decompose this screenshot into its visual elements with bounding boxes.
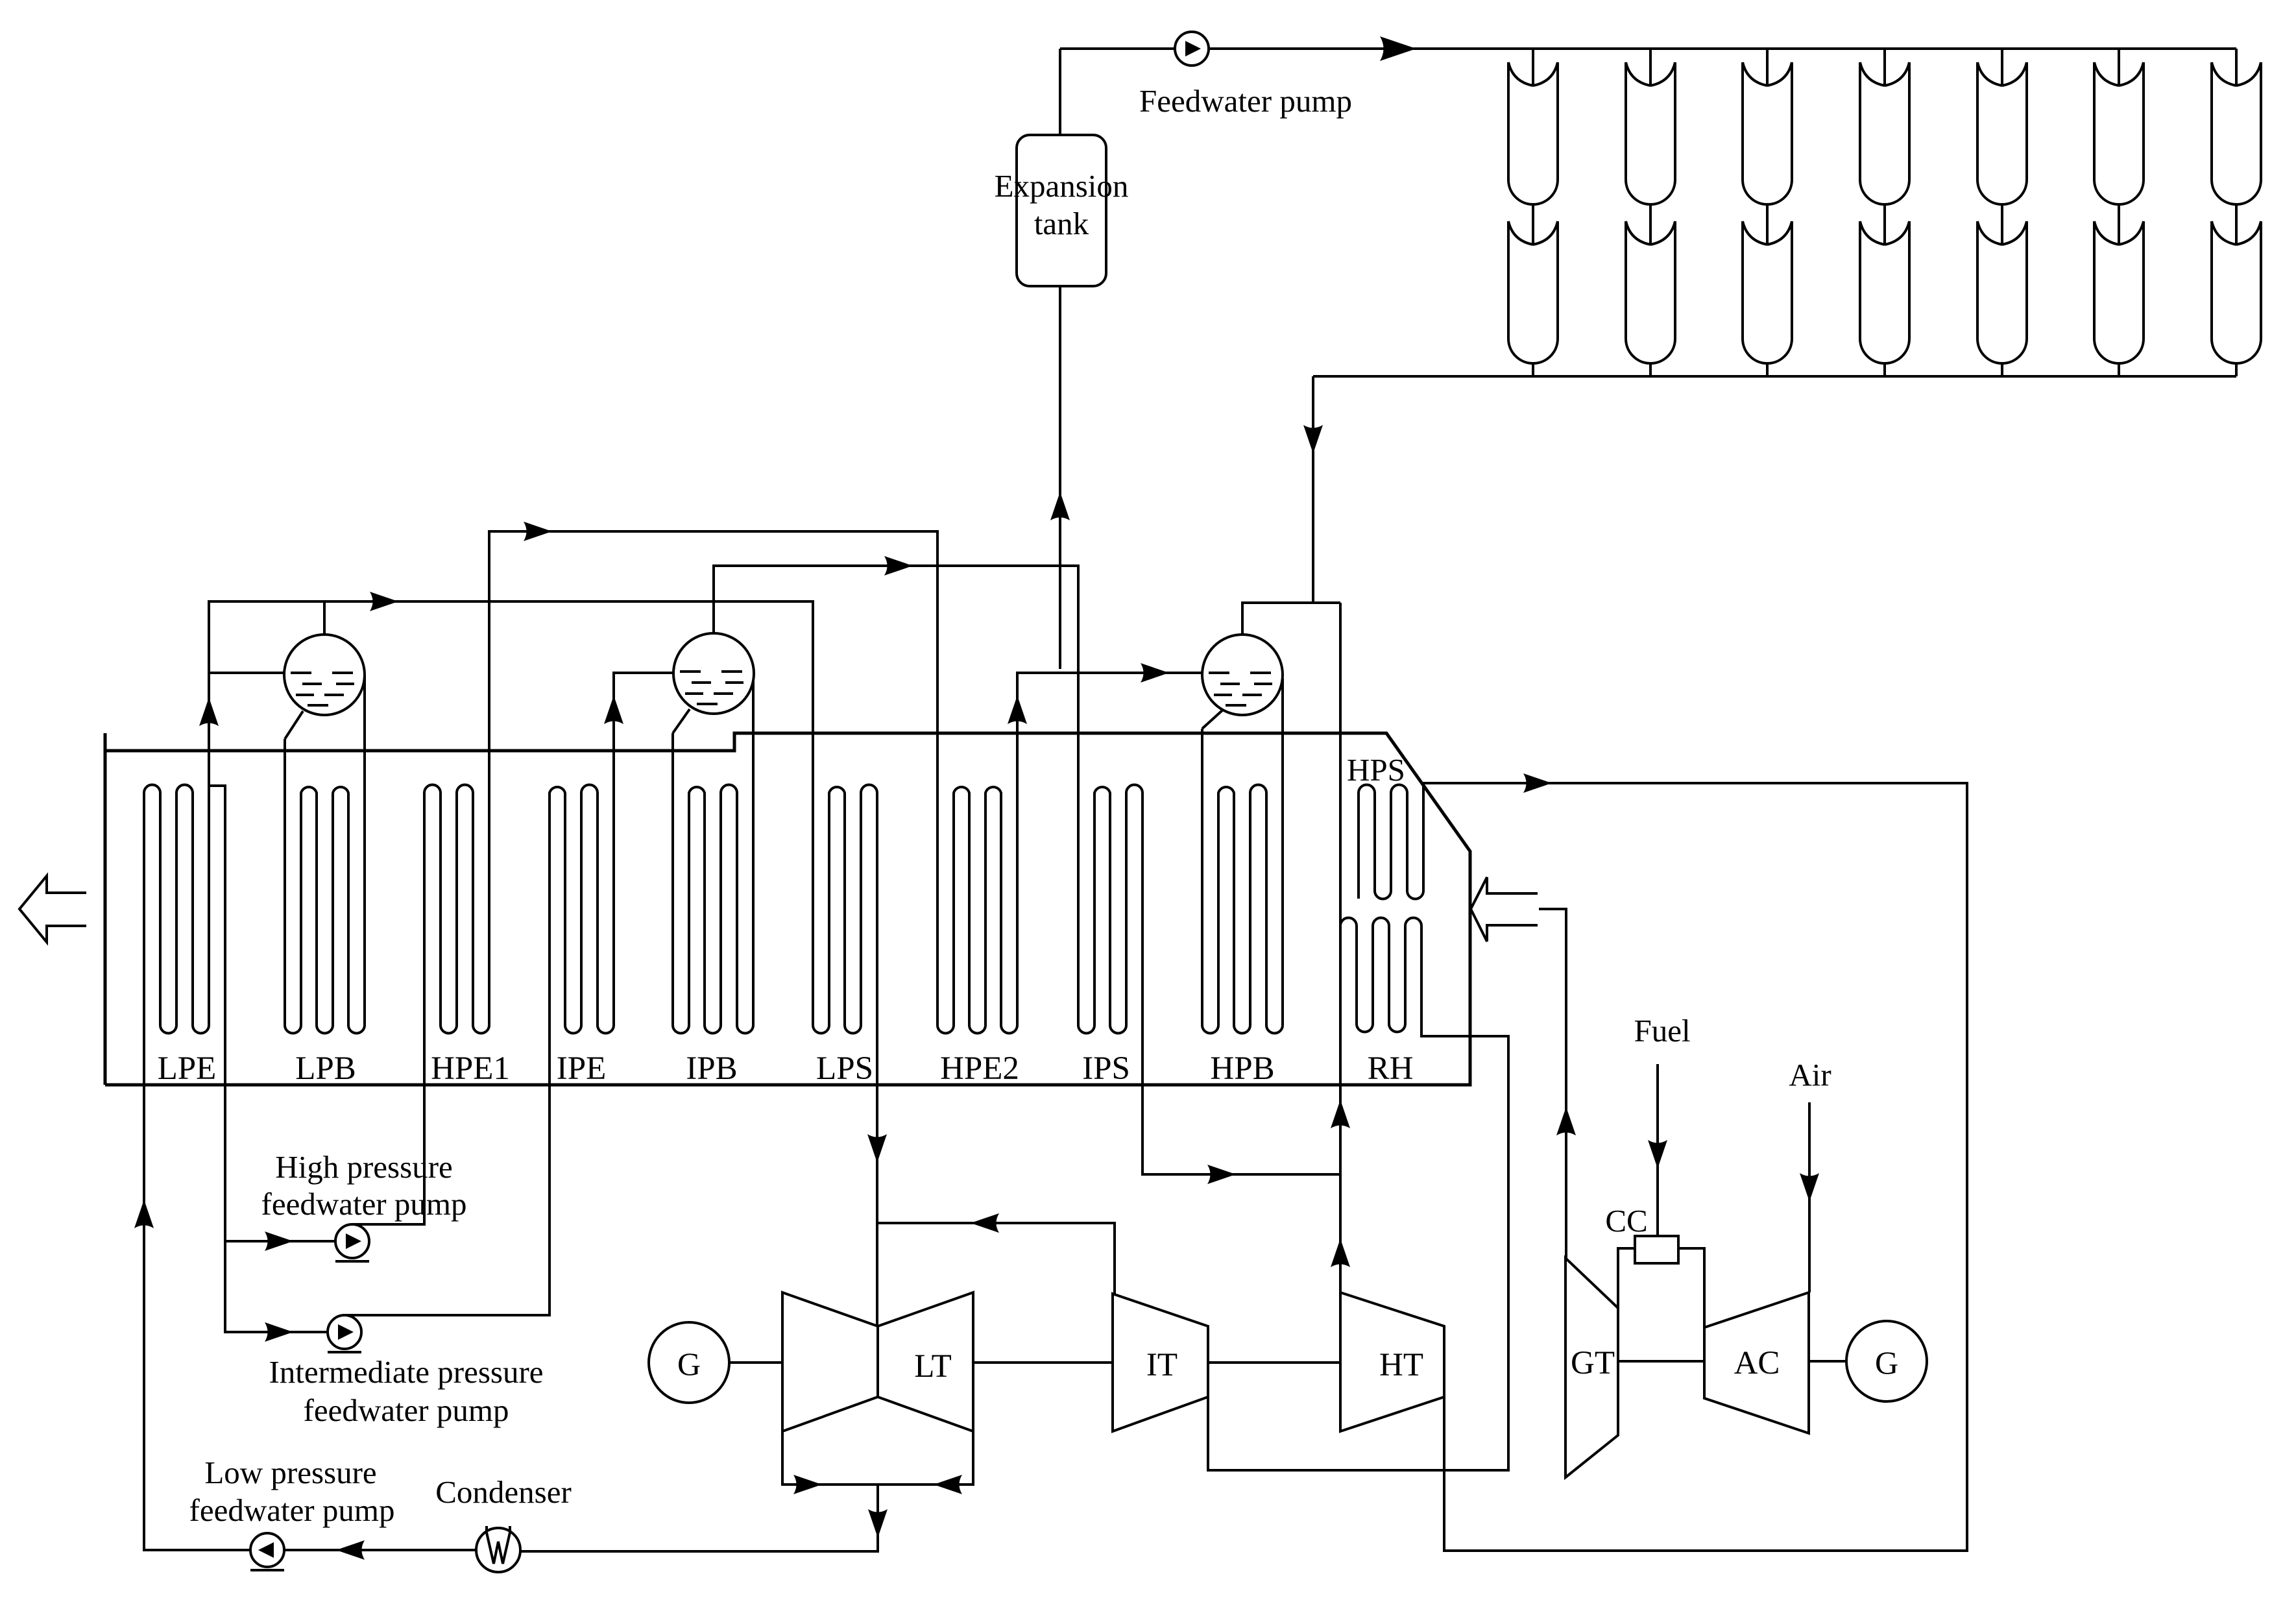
LT turbine — [782, 1292, 973, 1431]
svg-text:IPB: IPB — [686, 1050, 737, 1087]
heating network column 5 — [2001, 49, 2003, 376]
drum separator IP — [673, 633, 754, 714]
IT turbine — [1113, 1294, 1208, 1431]
svg-text:High pressure: High pressure — [275, 1149, 453, 1185]
svg-text:HPS: HPS — [1347, 752, 1405, 788]
svg-text:Condenser: Condenser — [435, 1474, 572, 1510]
svg-text:Feedwater pump: Feedwater pump — [1139, 83, 1352, 119]
shaft IT-HT — [1208, 1361, 1340, 1364]
svg-text:G: G — [677, 1346, 701, 1382]
svg-text:CC: CC — [1605, 1203, 1647, 1239]
svg-text:tank: tank — [1034, 206, 1089, 241]
shaft AC-G — [1809, 1360, 1846, 1363]
heating network column 2 — [1649, 49, 1652, 376]
shaft LT-IT — [973, 1361, 1113, 1364]
wire: drum1 riser diagonal — [285, 711, 303, 739]
LPB evaporator serpentine with drum1 downcomer — [285, 675, 365, 1033]
HP water path: HP pump out, HPE1, overhead to HPE2, to HP drum feed — [352, 531, 1202, 1224]
wire: drum1 feed — [209, 672, 284, 674]
svg-text:GT: GT — [1571, 1345, 1615, 1381]
svg-text:LT: LT — [914, 1348, 952, 1385]
heating network column 3 — [1766, 49, 1769, 376]
heating network column 1 — [1532, 49, 1534, 376]
HRSG duct outline — [105, 733, 1470, 1085]
wire: LT exhaust to condenser — [520, 1485, 878, 1551]
IPB evaporator serpentine with drum2 downcomer — [673, 673, 753, 1033]
svg-text:LPS: LPS — [816, 1050, 873, 1087]
condensate line from condenser to LP pump — [284, 1549, 477, 1551]
svg-text:HPE1: HPE1 — [431, 1050, 510, 1087]
svg-text:Expansion: Expansion — [995, 168, 1129, 204]
fuel line — [1656, 1064, 1659, 1236]
air line — [1808, 1102, 1811, 1292]
svg-text:AC: AC — [1734, 1345, 1780, 1381]
wire: LPE branch down to feed pumps — [209, 786, 335, 1332]
wire: drum1 steam riser — [323, 601, 326, 635]
condenser — [487, 1526, 510, 1539]
svg-text:feedwater pump: feedwater pump — [189, 1492, 395, 1528]
svg-text:IT: IT — [1146, 1347, 1178, 1383]
shaft GT-AC — [1618, 1360, 1704, 1363]
svg-text:HPE2: HPE2 — [940, 1050, 1019, 1087]
HPS inlet / HT exhaust vertical — [1339, 603, 1342, 1292]
heating network column 4 — [1883, 49, 1886, 376]
IP water path: IP pump out, IPE serpentine, drum2 feed — [344, 673, 674, 1315]
svg-text:Intermediate pressure: Intermediate pressure — [269, 1354, 543, 1390]
wire: drum3 steam to HPS inlet — [1242, 603, 1340, 635]
HPB evaporator serpentine with drum3 downcomer — [1202, 678, 1283, 1033]
combustion chamber CC — [1618, 1248, 1704, 1327]
crossover IT to LT — [878, 1223, 1115, 1294]
IP steam path: drum2 to IPS serpentine to reheat line — [714, 566, 1340, 1174]
HPS serpentine and main steam line to HT — [1359, 783, 1967, 1551]
expansion tank riser — [1059, 49, 1061, 669]
AC compressor — [1704, 1292, 1809, 1433]
intermediate pressure feedwater pump — [328, 1315, 361, 1349]
GT turbine — [1565, 1258, 1618, 1477]
flue gas outlet hollow arrow (left) — [19, 876, 86, 942]
HT turbine — [1340, 1292, 1444, 1431]
svg-text:Low pressure: Low pressure — [204, 1455, 376, 1490]
svg-text:LPB: LPB — [295, 1050, 356, 1087]
svg-text:G: G — [1875, 1344, 1898, 1381]
RH serpentine and hot reheat line to IT — [1208, 918, 1508, 1471]
svg-text:RH: RH — [1368, 1050, 1414, 1087]
expansion tank — [1017, 135, 1106, 286]
svg-text:feedwater pump: feedwater pump — [304, 1392, 509, 1428]
generator G (steam side) — [649, 1322, 729, 1403]
generator G (gas side) — [1846, 1321, 1927, 1401]
district heating network: 7 columns x 2 bulbs — [1313, 49, 2261, 376]
svg-text:IPS: IPS — [1082, 1050, 1130, 1087]
wire: GT exhaust to HRSG inlet — [1539, 909, 1566, 1258]
heating network column 7 — [2235, 49, 2238, 376]
svg-text:Fuel: Fuel — [1634, 1013, 1690, 1048]
LP water path: condensate line, LPE serpentine, LP steam bus, LPS serpentine to LT — [144, 601, 877, 1550]
svg-text:Air: Air — [1789, 1057, 1831, 1093]
svg-text:LPE: LPE — [158, 1050, 217, 1087]
flue gas inlet hollow arrow (right) — [1471, 877, 1538, 941]
svg-text:HT: HT — [1379, 1347, 1423, 1383]
feedwater pump — [1175, 32, 1209, 66]
LT exhaust box — [782, 1431, 973, 1485]
drum separator LP — [284, 635, 365, 715]
drum separator HP — [1202, 635, 1283, 715]
wire: drum3 riser diagonal — [1202, 710, 1223, 729]
heating network column 6 — [2118, 49, 2120, 376]
wire: heating network return down to drum3 line — [1312, 376, 1314, 603]
top feedwater line to heating network — [1060, 47, 2236, 50]
svg-text:IPE: IPE — [557, 1050, 607, 1087]
svg-text:feedwater pump: feedwater pump — [261, 1186, 467, 1222]
svg-text:HPB: HPB — [1210, 1050, 1274, 1087]
wire: drum2 riser diagonal — [673, 709, 690, 733]
